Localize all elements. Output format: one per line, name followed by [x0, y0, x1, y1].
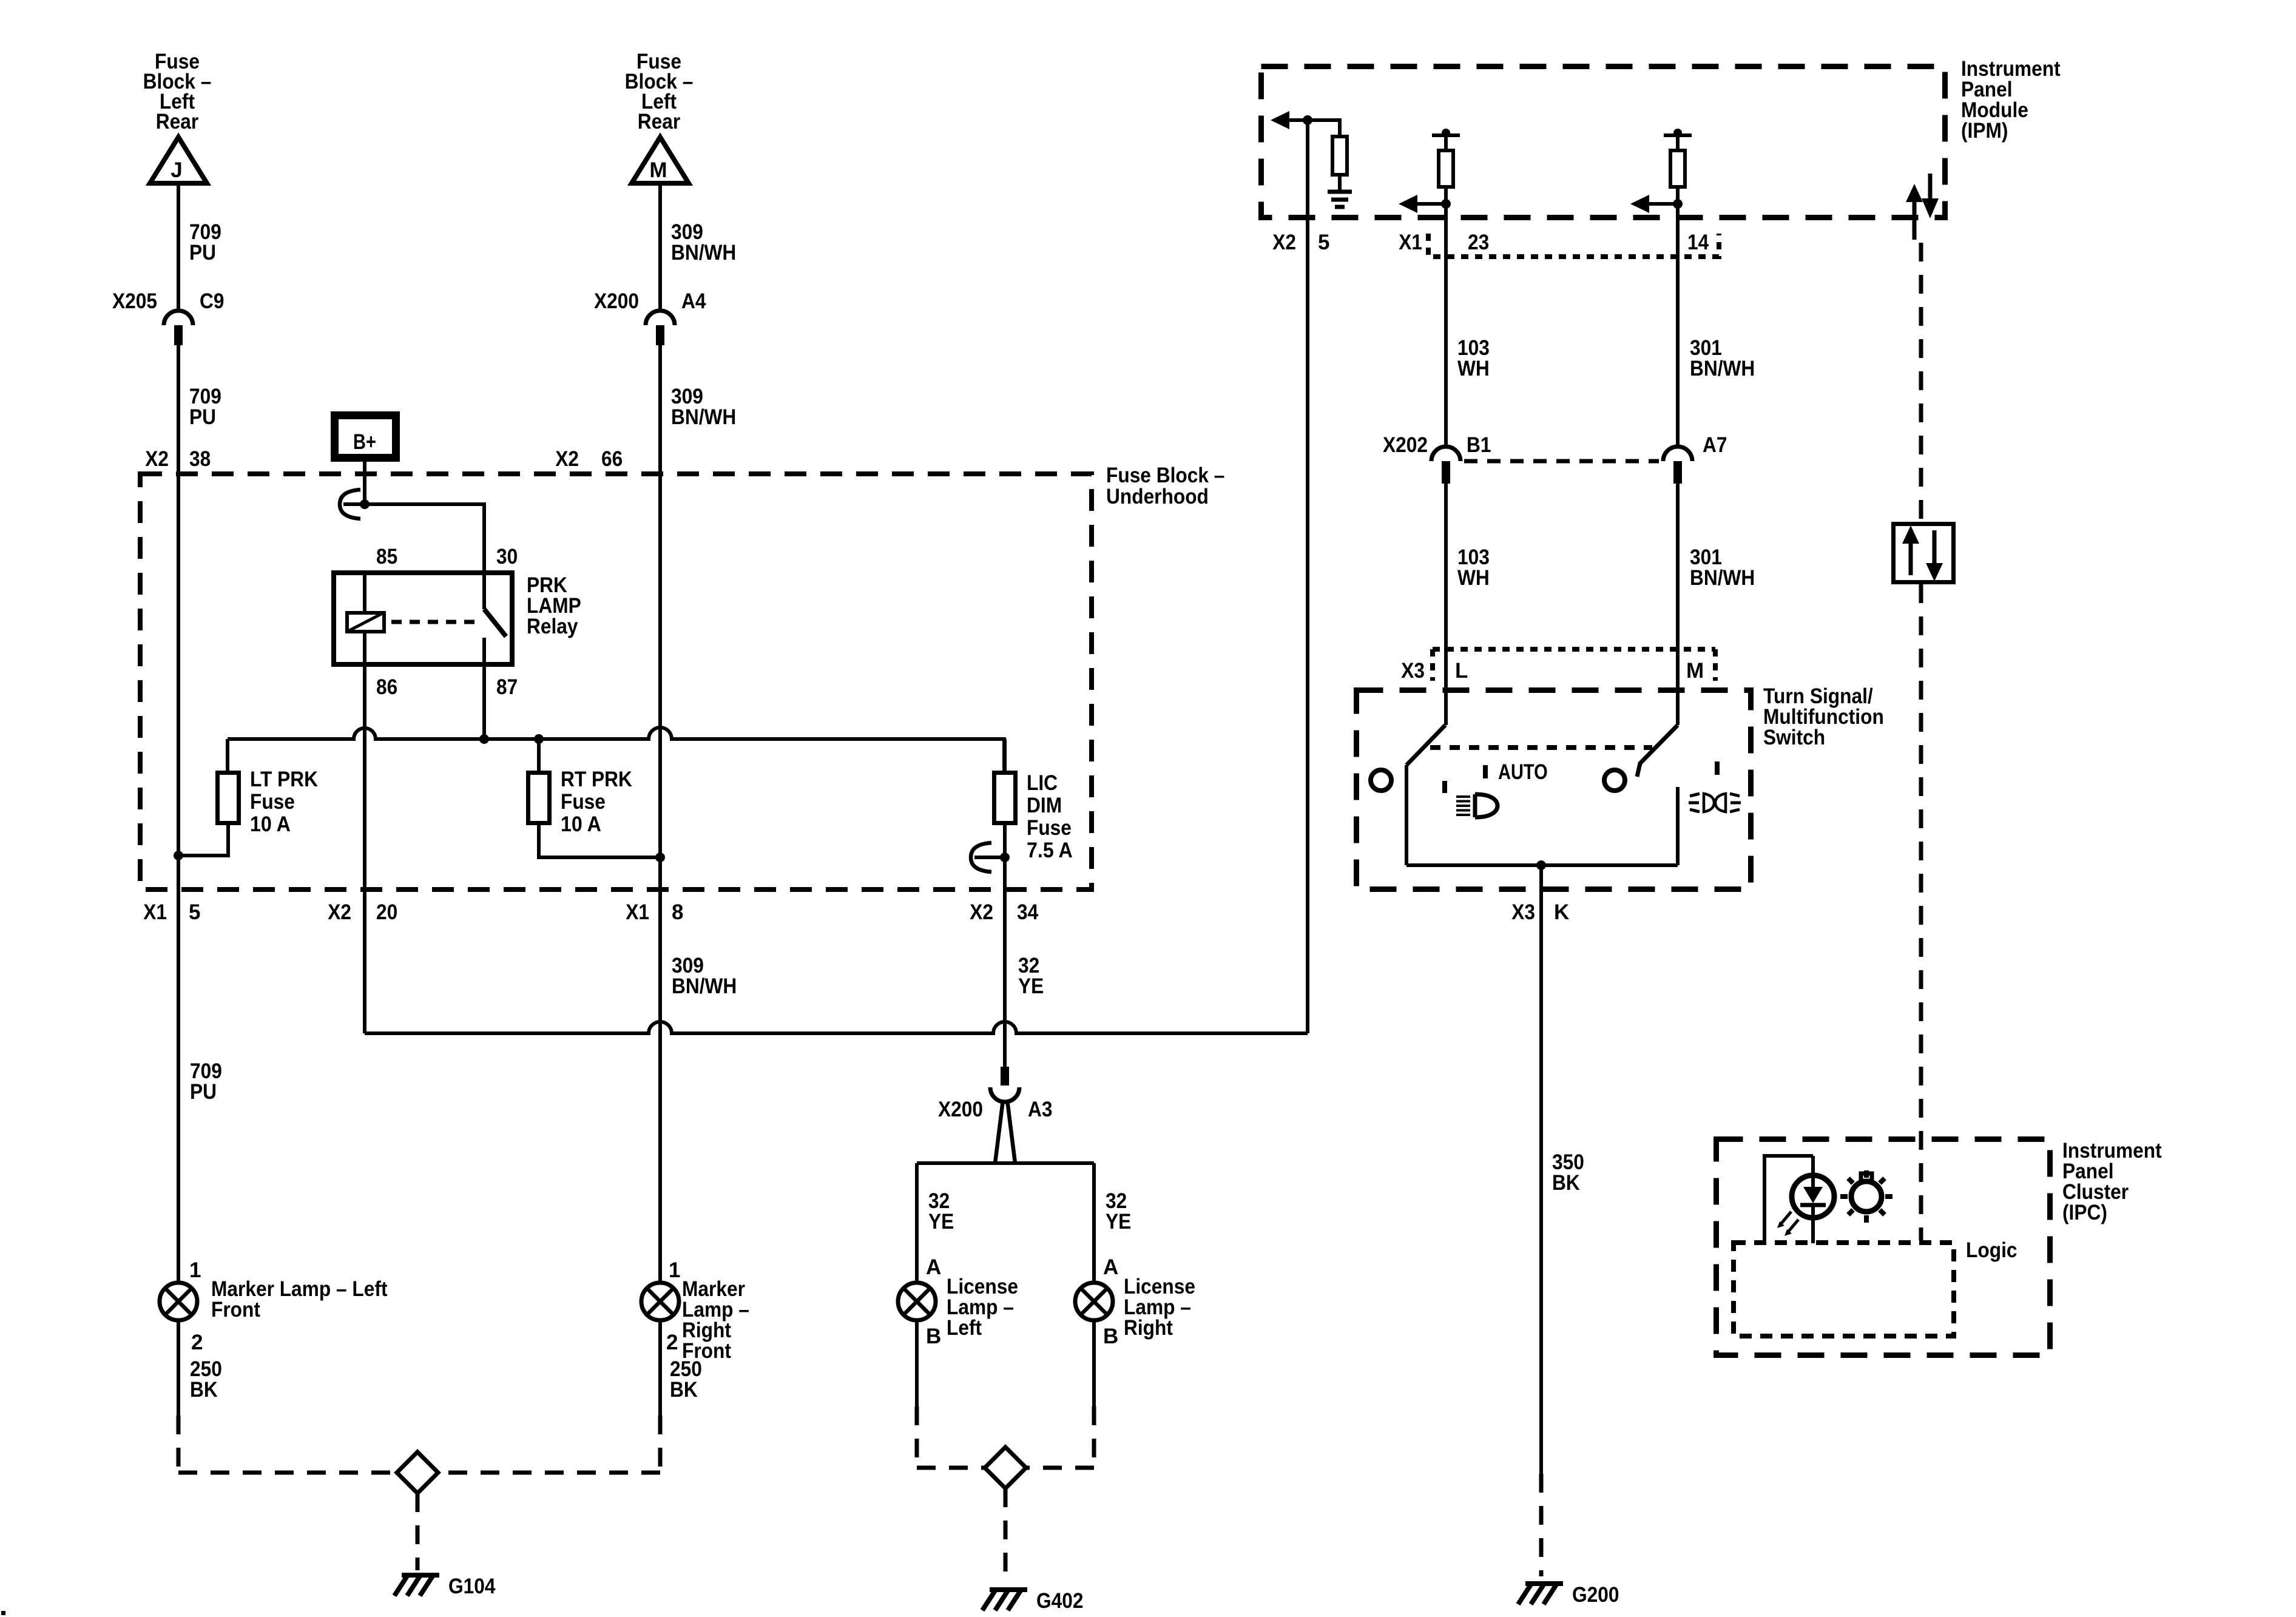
svg-text:A: A — [926, 1255, 941, 1279]
svg-text:85: 85 — [376, 545, 397, 569]
svg-text:2: 2 — [666, 1331, 678, 1354]
svg-text:M: M — [649, 158, 667, 182]
svg-text:Switch: Switch — [1763, 726, 1825, 749]
svg-text:LT PRK: LT PRK — [250, 768, 318, 791]
svg-text:C9: C9 — [200, 289, 225, 313]
svg-text:23: 23 — [1468, 231, 1489, 254]
svg-text:5: 5 — [1318, 231, 1329, 254]
svg-text:A7: A7 — [1703, 433, 1727, 457]
svg-text:10 A: 10 A — [250, 812, 291, 836]
svg-text:X2: X2 — [145, 447, 169, 471]
svg-text:YE: YE — [1018, 974, 1044, 998]
svg-text:Fuse: Fuse — [250, 790, 295, 814]
svg-text:PU: PU — [189, 241, 216, 265]
svg-text:BN/WH: BN/WH — [671, 405, 736, 429]
svg-text:WH: WH — [1457, 357, 1490, 380]
svg-text:Underhood: Underhood — [1106, 485, 1209, 508]
svg-text:(IPC): (IPC) — [2062, 1201, 2107, 1224]
svg-text:30: 30 — [496, 545, 518, 569]
svg-text:Left: Left — [947, 1316, 982, 1340]
svg-text:B: B — [1103, 1325, 1118, 1348]
svg-text:Relay: Relay — [527, 615, 578, 638]
svg-text:X200: X200 — [594, 289, 639, 313]
svg-text:X1: X1 — [143, 900, 167, 924]
svg-text:87: 87 — [496, 675, 518, 699]
svg-text:L: L — [1455, 659, 1468, 683]
svg-text:BK: BK — [670, 1378, 698, 1402]
svg-text:7.5 A: 7.5 A — [1027, 839, 1073, 862]
svg-text:X2: X2 — [970, 900, 993, 924]
svg-text:BN/WH: BN/WH — [671, 241, 736, 265]
svg-text:A3: A3 — [1028, 1098, 1053, 1121]
svg-text:WH: WH — [1457, 566, 1490, 590]
svg-text:5: 5 — [189, 900, 200, 924]
svg-text:AUTO: AUTO — [1498, 760, 1548, 784]
svg-text:YE: YE — [928, 1210, 954, 1234]
svg-text:Rear: Rear — [638, 110, 681, 133]
svg-text:J: J — [171, 158, 182, 182]
svg-text:B: B — [926, 1325, 941, 1348]
svg-text:1: 1 — [189, 1258, 201, 1282]
svg-text:DIM: DIM — [1027, 794, 1062, 817]
svg-text:20: 20 — [376, 900, 397, 924]
svg-text:2: 2 — [191, 1331, 203, 1354]
svg-text:BN/WH: BN/WH — [672, 974, 737, 998]
svg-text:B+: B+ — [353, 430, 376, 454]
svg-text:YE: YE — [1106, 1210, 1131, 1234]
svg-text:X205: X205 — [112, 289, 157, 313]
svg-text:A4: A4 — [681, 289, 706, 313]
svg-text:X3: X3 — [1511, 900, 1535, 924]
svg-text:Fuse Block –: Fuse Block – — [1106, 464, 1224, 487]
svg-text:34: 34 — [1017, 900, 1039, 924]
svg-text:X2: X2 — [555, 447, 579, 471]
svg-text:Fuse: Fuse — [1027, 816, 1072, 840]
svg-text:BN/WH: BN/WH — [1690, 357, 1755, 380]
svg-text:(IPM): (IPM) — [1961, 119, 2008, 143]
svg-text:RT PRK: RT PRK — [561, 768, 632, 791]
svg-text:Logic: Logic — [1966, 1238, 2017, 1262]
svg-text:86: 86 — [376, 675, 397, 699]
svg-text:66: 66 — [601, 447, 623, 471]
svg-text:X202: X202 — [1383, 433, 1428, 457]
svg-text:X2: X2 — [328, 900, 351, 924]
svg-text:BK: BK — [1552, 1171, 1580, 1195]
svg-text:K: K — [1554, 900, 1569, 924]
svg-text:M: M — [1686, 659, 1704, 683]
svg-text:38: 38 — [189, 447, 211, 471]
svg-text:A: A — [1103, 1255, 1118, 1279]
svg-text:Right: Right — [1124, 1316, 1173, 1340]
svg-text:Rear: Rear — [156, 110, 199, 133]
svg-text:X2: X2 — [1272, 231, 1296, 254]
svg-text:BK: BK — [190, 1378, 218, 1402]
svg-text:LIC: LIC — [1027, 771, 1058, 795]
svg-text:Fuse: Fuse — [561, 790, 606, 814]
svg-text:Front: Front — [682, 1339, 731, 1363]
svg-text:8: 8 — [672, 900, 683, 924]
svg-text:Front: Front — [211, 1298, 260, 1322]
svg-text:X1: X1 — [626, 900, 649, 924]
svg-text:G402: G402 — [1036, 1589, 1084, 1613]
svg-text:PU: PU — [190, 1080, 217, 1104]
svg-text:PU: PU — [189, 405, 216, 429]
svg-text:X200: X200 — [938, 1098, 983, 1121]
svg-text:X3: X3 — [1401, 659, 1425, 683]
svg-text:BN/WH: BN/WH — [1690, 566, 1755, 590]
svg-text:G200: G200 — [1572, 1583, 1619, 1607]
svg-text:10 A: 10 A — [561, 812, 601, 836]
svg-text:X1: X1 — [1399, 231, 1422, 254]
svg-text:G104: G104 — [448, 1575, 496, 1598]
svg-text:B1: B1 — [1467, 433, 1491, 457]
svg-text:1: 1 — [669, 1258, 680, 1282]
svg-text:14: 14 — [1687, 231, 1709, 254]
